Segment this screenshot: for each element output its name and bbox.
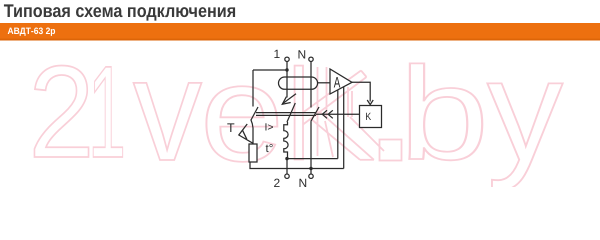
linkage single to K bbox=[316, 113, 360, 115]
svg-text:I>: I> bbox=[265, 122, 274, 134]
schematic bbox=[239, 57, 382, 178]
relay K bbox=[360, 106, 382, 128]
wire supply tap 2 vertical bbox=[343, 87, 345, 169]
wire amplifier output to relay bbox=[352, 82, 370, 101]
svg-text:v: v bbox=[133, 28, 202, 187]
contact blade pole N bbox=[311, 107, 319, 121]
svg-text:N: N bbox=[299, 176, 308, 187]
svg-text:2: 2 bbox=[274, 176, 281, 187]
svg-text:A: A bbox=[334, 74, 341, 91]
orange header bar bbox=[0, 23, 600, 41]
svg-text:e: e bbox=[200, 37, 284, 188]
contact blade pole 1 bbox=[287, 103, 295, 122]
test button T arrow bbox=[239, 124, 253, 143]
resistor R (test) bbox=[249, 144, 257, 162]
watermark glyph k (with stray outline fragments) bbox=[295, 66, 384, 160]
linkage arrowhead 1 bbox=[322, 110, 327, 118]
linkage arrowhead 2 bbox=[328, 110, 333, 118]
watermark 21vek.by bbox=[29, 28, 564, 191]
svg-text:b: b bbox=[399, 40, 489, 187]
wire CT to amplifier bbox=[318, 82, 330, 84]
svg-text:K: K bbox=[365, 111, 371, 123]
linkage double bar bbox=[256, 112, 316, 114]
wire supply tap 1 horizontal bbox=[287, 158, 338, 160]
op-amp U1 (amplifier A) bbox=[330, 69, 352, 94]
svg-text:Типовая схема подключения: Типовая схема подключения bbox=[4, 0, 237, 21]
wire pole N bottom bbox=[310, 121, 312, 173]
arrowhead into K bbox=[367, 100, 373, 105]
wire supply tap 1 vertical bbox=[337, 90, 339, 159]
junction tap dot bbox=[285, 68, 288, 71]
schematic labels bbox=[227, 47, 307, 190]
node N top (terminal) bbox=[309, 57, 313, 61]
svg-text:y: y bbox=[487, 29, 564, 187]
contact blade test bbox=[251, 107, 258, 120]
svg-text:1: 1 bbox=[88, 38, 126, 185]
svg-text:АВДТ-63 2p: АВДТ-63 2p bbox=[8, 26, 56, 36]
trip arrow at pole 1 contact bbox=[282, 94, 296, 104]
wire test vertical bbox=[252, 70, 254, 107]
svg-text:2: 2 bbox=[29, 38, 95, 185]
wire test tap horizontal bbox=[253, 69, 287, 71]
wire blade to resistor bbox=[251, 120, 253, 145]
svg-text:N: N bbox=[298, 48, 307, 62]
node 2 (bottom terminal) bbox=[285, 174, 289, 178]
svg-text:1: 1 bbox=[274, 47, 281, 61]
node N bottom (terminal) bbox=[309, 174, 313, 178]
wire pole N vertical top bbox=[310, 62, 312, 108]
current transformer CT bbox=[279, 77, 318, 89]
junction dot pole 2 bbox=[285, 157, 288, 160]
watermark dot of .by bbox=[380, 140, 402, 161]
svg-text:T: T bbox=[227, 121, 235, 135]
wire supply tap 2 / test return horizontal bbox=[250, 162, 344, 169]
thermal-magnetic release coil bbox=[284, 122, 288, 159]
svg-text:t°: t° bbox=[266, 143, 274, 155]
wire pole 1 vertical top bbox=[286, 62, 288, 98]
node 1 (top terminal) bbox=[285, 57, 289, 61]
wire pole 2 to terminal bbox=[286, 159, 288, 174]
junction dot N bottom bbox=[309, 167, 312, 170]
